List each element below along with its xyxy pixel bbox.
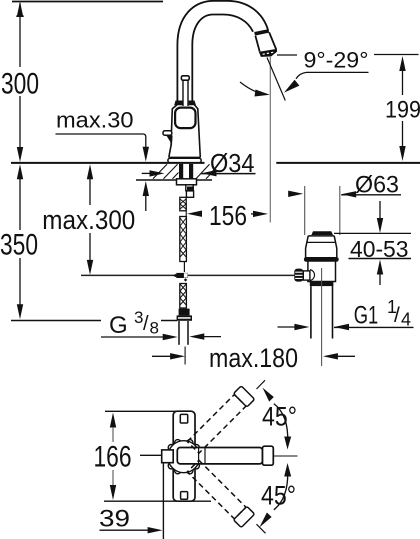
svg-text:166: 166: [94, 441, 132, 474]
tip level line: [277, 54, 297, 56]
G1 1/4 dim arrows: [278, 326, 298, 328]
plan centerline right: [274, 455, 298, 457]
small blocks under locknut: [186, 185, 193, 191]
drain plug top: [311, 231, 333, 235]
spout separation band: [255, 31, 269, 34]
spout nozzle: [255, 32, 276, 51]
drain joint band: [310, 282, 334, 287]
9-29 diagonal: [267, 58, 285, 101]
hose segment 3 hatched: [180, 284, 187, 309]
svg-text:9°-29°: 9°-29°: [304, 48, 369, 73]
plan left tab: [162, 450, 174, 463]
plan plate: [173, 411, 195, 501]
counter top line: [11, 162, 205, 164]
svg-text:39: 39: [99, 506, 130, 533]
lever stem: [182, 80, 184, 106]
Ø63 dim arrows: [288, 193, 293, 195]
bottom reference line G3/8 level: [11, 320, 101, 322]
dim 40-53: [334, 232, 411, 234]
hose segment 2 hatched: [180, 217, 187, 262]
locknut: [177, 179, 197, 185]
drain body: [308, 261, 336, 282]
svg-text:G: G: [109, 312, 128, 339]
plan reference line top: [105, 410, 186, 412]
plan spout joint lines: [198, 448, 200, 464]
dim 156: [185, 203, 187, 227]
svg-text:max.180: max.180: [209, 343, 298, 373]
dim 199: [399, 56, 405, 71]
plan reference line bottom: [104, 500, 211, 502]
dim 300 arrows: [17, 2, 23, 17]
body window: [175, 108, 195, 129]
plan scalloped circle: [165, 440, 202, 474]
lower 45 extension: [257, 524, 266, 533]
svg-text:G1: G1: [354, 302, 379, 330]
swivel arc with arrow: [240, 82, 263, 94]
deck hatching left: [153, 164, 179, 179]
spout tip plumb line: [269, 57, 271, 223]
plan spout solid: [177, 448, 262, 464]
faucet spout outer curve: [177, 1, 268, 101]
plan rod to left: [140, 454, 162, 456]
lower swivel arc: [274, 470, 288, 510]
base plate: [169, 156, 201, 158]
svg-text:/: /: [143, 313, 149, 335]
counter bottom line: [136, 179, 212, 181]
svg-text:300: 300: [1, 68, 39, 101]
svg-text:8: 8: [150, 319, 159, 338]
rod knob: [294, 269, 303, 282]
threaded shank: [179, 164, 183, 179]
drain: Ø63 extension lines: [304, 186, 306, 235]
body outline left: [172, 105, 178, 131]
ghost spout upper: [186, 386, 254, 454]
supply pipe: [178, 321, 180, 345]
upper 45 extension: [257, 380, 266, 389]
lever cap: [181, 76, 189, 80]
max.180 dim: [184, 347, 186, 365]
body spur white: [163, 131, 172, 136]
svg-text:45°: 45°: [261, 481, 296, 511]
supply nut dark: [179, 309, 190, 316]
dim Ø34 arrows: [142, 172, 152, 174]
G3/8 dim arrows: [101, 336, 165, 338]
deck hatching right: [196, 164, 212, 179]
plan axis vertical: [162, 463, 164, 539]
spout aerator face: [260, 50, 277, 57]
svg-text:max.30: max.30: [56, 108, 134, 133]
hose segment 1 hatched: [180, 197, 186, 211]
faucet spout inner curve: [192, 15, 253, 101]
top reference line: [12, 1, 163, 3]
ghost spout lower: [186, 459, 254, 527]
plate top screw square: [180, 414, 187, 423]
drain centerline: [321, 268, 323, 366]
plate bottom screw square: [181, 492, 188, 500]
drain tailpipe: [310, 286, 312, 338]
body spur black wedge: [166, 135, 172, 146]
svg-text:4: 4: [401, 310, 411, 330]
svg-text:156: 156: [209, 200, 247, 231]
dim max.300: [87, 164, 93, 179]
dim 300 vertical line: [19, 3, 21, 149]
drain flange: [306, 236, 337, 257]
rod stub above: [183, 262, 185, 273]
body outline right: [195, 105, 201, 157]
svg-text:350: 350: [0, 229, 38, 262]
svg-text:199: 199: [385, 97, 420, 124]
drain gasket: [304, 257, 339, 262]
dim 166: [110, 413, 116, 428]
rod cross fitting: [172, 274, 176, 278]
upper swivel arc: [274, 404, 288, 442]
riser base wedges: [174, 101, 182, 106]
svg-text:/: /: [394, 304, 400, 327]
svg-text:max.300: max.300: [42, 205, 135, 235]
pop-up rod: [81, 274, 295, 276]
dim 350: [17, 164, 23, 179]
svg-text:45°: 45°: [262, 402, 297, 432]
